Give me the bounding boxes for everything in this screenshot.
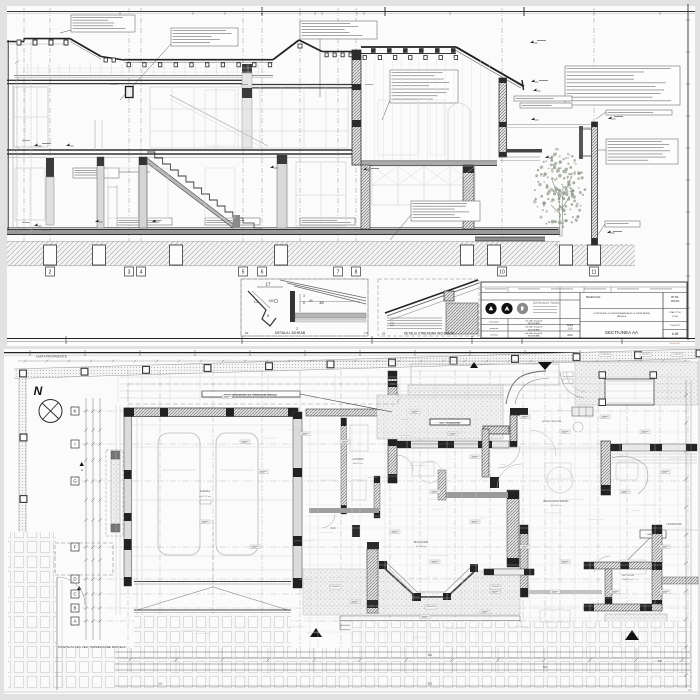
annotation box C: [300, 21, 377, 39]
svg-text:LIMITA PROPRIETATE: LIMITA PROPRIETATE: [36, 355, 67, 359]
detail DETALIU STREASINA INCHISA: [378, 279, 479, 336]
svg-text:13: 13: [254, 299, 259, 304]
svg-text:F: F: [74, 545, 77, 550]
top sheet: section drawing SECTIUNEA AA: [7, 6, 695, 346]
interior wall x94: [94, 120, 96, 150]
laundry NW wall up: [388, 371, 397, 409]
level markers: [34, 143, 37, 146]
svg-text:arh. Abc Sergiu N.: arh. Abc Sergiu N.: [525, 326, 543, 329]
svg-text:BUCATARIE: BUCATARIE: [414, 540, 429, 544]
hatched terrace: [377, 395, 503, 439]
svg-text:sef proiect: sef proiect: [489, 321, 499, 324]
black triangle markers plan: [310, 628, 322, 637]
svg-text:LIVINGROOM: LIVINGROOM: [666, 523, 681, 526]
garage right wall: [293, 412, 302, 588]
porch floor lines: [500, 156, 540, 158]
svg-text:720 A 297: 720 A 297: [670, 324, 681, 327]
right bldg wall x361 low: [361, 165, 370, 229]
door arcs: [321, 514, 335, 528]
svg-text:I: I: [74, 442, 75, 447]
section cut mark A: [80, 462, 84, 466]
svg-text:1:50: 1:50: [567, 327, 573, 331]
left roof parapet: [7, 41, 24, 43]
CALL B label: [640, 530, 666, 538]
window mullions ground floor more: [108, 168, 168, 218]
first floor slab: [7, 149, 355, 151]
svg-text:130: 130: [268, 299, 274, 303]
laundry walls: [306, 409, 397, 416]
big glazing grid: [150, 87, 348, 148]
curved drive arcs: [506, 371, 546, 404]
svg-text:RESTAURANT DINING: RESTAURANT DINING: [543, 500, 568, 503]
label VEZI FATADA: [430, 419, 470, 425]
terrace steps: [340, 615, 520, 617]
svg-text:ACCES PRINCIPAL: ACCES PRINCIPAL: [542, 420, 562, 423]
stair soffit band: [147, 158, 233, 228]
north compass: [39, 400, 62, 423]
svg-text:DTAC/ PTh/: DTAC/ PTh/: [669, 311, 681, 314]
svg-text:d3r: d3r: [688, 688, 692, 692]
gate dashed box: [55, 543, 113, 575]
annotation box A: [71, 15, 135, 32]
svg-text:5: 5: [242, 269, 245, 275]
grid bubbles (section): [46, 267, 55, 276]
right lower hatch strip: [605, 614, 667, 624]
svg-text:46/2022: 46/2022: [671, 300, 680, 303]
court posts: [599, 372, 606, 379]
sheet bottom frame: [7, 338, 695, 340]
svg-text:3: 3: [303, 294, 305, 298]
stair lower steps: [233, 218, 262, 228]
svg-text:MIC DEJUN: MIC DEJUN: [622, 575, 634, 577]
bedroom walls: [584, 562, 662, 569]
living east wall piece: [662, 529, 698, 531]
wall x601: [601, 441, 611, 495]
svg-text:639: 639: [658, 660, 663, 663]
fence band top (sloped): [14, 349, 697, 379]
svg-text:PR.NR.: PR.NR.: [671, 296, 679, 299]
svg-text:10: 10: [499, 269, 505, 275]
svg-text:17: 17: [265, 282, 271, 287]
plan vertical grid lines: [127, 370, 129, 690]
left exterior wall: [7, 40, 9, 229]
big terrace hatch: [303, 569, 520, 615]
title block: [481, 282, 687, 345]
svg-text:MUNTEANU: MUNTEANU: [528, 328, 541, 331]
living north wall: [610, 444, 697, 451]
entry walls: [483, 426, 509, 434]
windows ground floor: [15, 168, 45, 220]
svg-text:1:5: 1:5: [364, 331, 369, 335]
staircase flight (descending to right): [147, 152, 233, 218]
svg-text:624: 624: [543, 666, 548, 669]
annotation box D: [390, 70, 458, 103]
svg-text:A: A: [81, 468, 83, 472]
retaining strip left of garage: [106, 450, 123, 536]
sas walls: [352, 525, 360, 537]
svg-text:MUNTEANU: MUNTEANU: [528, 335, 541, 338]
svg-text:7: 7: [337, 269, 340, 275]
vertical light lines center plan: [309, 408, 311, 648]
lower framing grid right bldg: [372, 166, 475, 205]
framed post attic: [126, 87, 134, 98]
sheet right border: [687, 4, 689, 340]
svg-text:A=6.93 mp: A=6.93 mp: [353, 462, 364, 465]
svg-text:PARCELA: PARCELA: [617, 315, 627, 318]
kitchen bay diagonals: [382, 566, 474, 597]
interior wall x277: [277, 155, 287, 228]
svg-text:GARAJ: GARAJ: [200, 489, 211, 493]
porch post x591: [592, 122, 598, 245]
redraw bay walls over hatch: [382, 566, 474, 597]
right bldg front wall x463: [463, 165, 474, 229]
porch sill lines: [506, 124, 591, 126]
svg-text:POARTA ACCES VEZI “IMPREJMUIR: POARTA ACCES VEZI “IMPREJMUIRE PARCELA”: [58, 645, 127, 649]
svg-text:N: N: [34, 384, 43, 398]
svg-text:6: 6: [261, 269, 264, 275]
svg-text:VEZI * FATADA/NORD*: VEZI * FATADA/NORD*: [439, 422, 461, 425]
vertical grid dash-dot lines: [23, 8, 25, 266]
bottom dimension lines: [115, 651, 690, 653]
tiny labels above fence right: [600, 353, 611, 357]
svg-text:8: 8: [267, 314, 269, 318]
column x499: [499, 78, 507, 157]
flat roof right of gable: [322, 51, 352, 53]
arch niche: [448, 103, 470, 160]
small labels mid: [514, 96, 572, 101]
annotation box B: [171, 28, 238, 46]
svg-text:MUNTEANU: MUNTEANU: [528, 322, 541, 325]
svg-text:DTOE: DTOE: [672, 316, 679, 318]
right dim strings: [685, 380, 687, 688]
dim strings left of garage: [115, 405, 117, 615]
door frames ground: [107, 185, 109, 227]
interior labels above ground slab: [117, 218, 172, 225]
left mid label: [73, 168, 119, 178]
svg-text:LAUNDRY: LAUNDRY: [352, 457, 365, 461]
living window detail lines: [610, 453, 697, 455]
svg-text:BENEFICIAR: BENEFICIAR: [586, 296, 601, 299]
grill block: [572, 407, 593, 416]
svg-text:arh. Abc Sergiu N.: arh. Abc Sergiu N.: [525, 319, 543, 322]
svg-text:4: 4: [140, 269, 143, 275]
ceiling line pair: [14, 75, 273, 77]
property squares left: [20, 434, 27, 441]
stair upper flight faint: [170, 95, 268, 146]
svg-text:02: 02: [382, 332, 386, 336]
upper white terrace: [411, 364, 559, 385]
small fixtures: [350, 425, 368, 451]
porch post x579: [579, 126, 583, 159]
fence band left: [19, 378, 26, 638]
earth hatch: [7, 242, 560, 267]
svg-text:A=26.80 mp: A=26.80 mp: [551, 504, 563, 507]
svg-text:Scara 1:50: Scara 1:50: [670, 343, 681, 345]
svg-text:02: 02: [245, 331, 249, 335]
svg-text:proiectat: proiectat: [490, 327, 499, 330]
plan top border: [4, 352, 698, 354]
windows first floor left: [14, 87, 48, 147]
small label right: [606, 110, 672, 115]
interior wall x46: [46, 158, 54, 177]
roof slope 1: [70, 39, 101, 57]
dashed modul outline: [128, 384, 398, 404]
svg-text:A=37.41 mp: A=37.41 mp: [199, 495, 212, 498]
dining south windowed wall: [484, 569, 534, 575]
svg-text:A=9.21 mp: A=9.21 mp: [623, 578, 634, 581]
tree: [533, 148, 586, 237]
svg-text:B: B: [73, 606, 76, 611]
foundation piers: [44, 245, 57, 265]
attic floor slab: [7, 79, 250, 81]
svg-text:A: A: [73, 619, 76, 624]
svg-text:2022: 2022: [567, 334, 573, 337]
right building floor slab: [361, 160, 497, 162]
long flat roof: [124, 59, 273, 61]
svg-text:2: 2: [49, 269, 52, 275]
svg-text:MODUL IMPREJMUIRE VEZI “IMPREJ: MODUL IMPREJMUIRE VEZI “IMPREJMUIRE PARC…: [224, 394, 277, 397]
dim scaffolding above walls: [120, 376, 690, 378]
svg-text:SECTIUNEA AA: SECTIUNEA AA: [605, 330, 639, 335]
svg-text:DETALIU STREASINA INCHISA 20: DETALIU STREASINA INCHISA 20: [404, 332, 454, 336]
porch beam: [506, 149, 542, 153]
annotation box E top-right: [565, 66, 680, 105]
big triangle marker: [538, 362, 552, 370]
svg-text:Arhitecture Studio: Arhitecture Studio: [533, 301, 560, 305]
left edge dim string section: [16, 40, 18, 232]
wic walls: [528, 590, 602, 594]
garage left wall: [124, 408, 132, 586]
vertical dim strings left: [85, 398, 87, 640]
dim strings inside garage: [132, 424, 292, 426]
svg-text:3: 3: [128, 269, 131, 275]
redraw kitchen west wall over hatch: [367, 549, 378, 613]
kitchen north wall w/ windows: [397, 441, 509, 448]
svg-text:40: 40: [309, 299, 313, 303]
detail DETALIU JGHEAB: [241, 279, 369, 336]
terrace inner dashes: [305, 577, 518, 579]
stair side wall: [139, 157, 147, 228]
horizontal light lines center plan: [305, 431, 690, 433]
svg-text:A=12.44 mp: A=12.44 mp: [416, 545, 428, 548]
redraw dining south wall over hatch: [484, 569, 534, 575]
tiny labels scattered on plan: [222, 395, 232, 399]
top-right big hatch terrace: [575, 362, 698, 405]
right bldg window frames: [378, 100, 418, 155]
dimension line under top border: [18, 360, 690, 362]
svg-text:164: 164: [158, 683, 163, 686]
annotation box G mid-low: [411, 201, 480, 221]
bottom sheet: floor plan: [4, 349, 698, 694]
paving bottom band: [56, 648, 692, 690]
paving central apron: [134, 614, 291, 648]
annotation box F right: [606, 139, 678, 164]
svg-text:G: G: [73, 479, 77, 484]
right building flat roof: [361, 46, 456, 48]
modul imprejmuire label: [202, 391, 300, 397]
svg-text:661: 661: [428, 654, 433, 657]
dim labels scattered: [430, 554, 449, 556]
faint horiz lines attic: [16, 67, 270, 69]
gable roof: [273, 40, 299, 60]
interior texture left bldg attic: [16, 64, 18, 78]
small flat roof: [101, 57, 124, 61]
grid bubbles plan: [71, 407, 79, 415]
right roof slope: [456, 47, 524, 87]
hall wall cluster: [507, 490, 519, 567]
inner court: [605, 379, 654, 405]
right bldg interior studs: [365, 58, 367, 160]
apron triangle: [137, 587, 288, 610]
sheet top border: [7, 11, 695, 13]
svg-text:verificat: verificat: [490, 333, 498, 336]
svg-text:8: 8: [355, 269, 358, 275]
cars: [158, 433, 200, 555]
labels on terrace: [330, 585, 341, 589]
svg-text:arh. Abc Sergiu N.: arh. Abc Sergiu N.: [525, 332, 543, 335]
svg-text:K: K: [73, 409, 76, 414]
svg-text:16: 16: [319, 300, 324, 305]
svg-text:DETALIU JGHEAB: DETALIU JGHEAB: [275, 331, 306, 335]
paving left strip: [8, 532, 56, 690]
garage top wall: [124, 408, 298, 417]
svg-text:661: 661: [428, 682, 433, 686]
garage door line: [134, 581, 291, 583]
sofa arcs living: [612, 456, 648, 494]
interior wall x242: [242, 64, 252, 73]
svg-text:11: 11: [591, 269, 596, 275]
ground slab: [7, 227, 560, 229]
svg-text:CONSTRUIRE LOCUINTA UNIFAMILIA: CONSTRUIRE LOCUINTA UNIFAMILIALA P+E, IM…: [593, 312, 651, 315]
small label right low: [605, 221, 640, 227]
level texts section: [22, 139, 30, 142]
main wall x352: [352, 50, 361, 165]
svg-text:A.06: A.06: [672, 332, 679, 336]
small labels terrace NE: [563, 372, 573, 377]
property squares top: [20, 370, 27, 377]
